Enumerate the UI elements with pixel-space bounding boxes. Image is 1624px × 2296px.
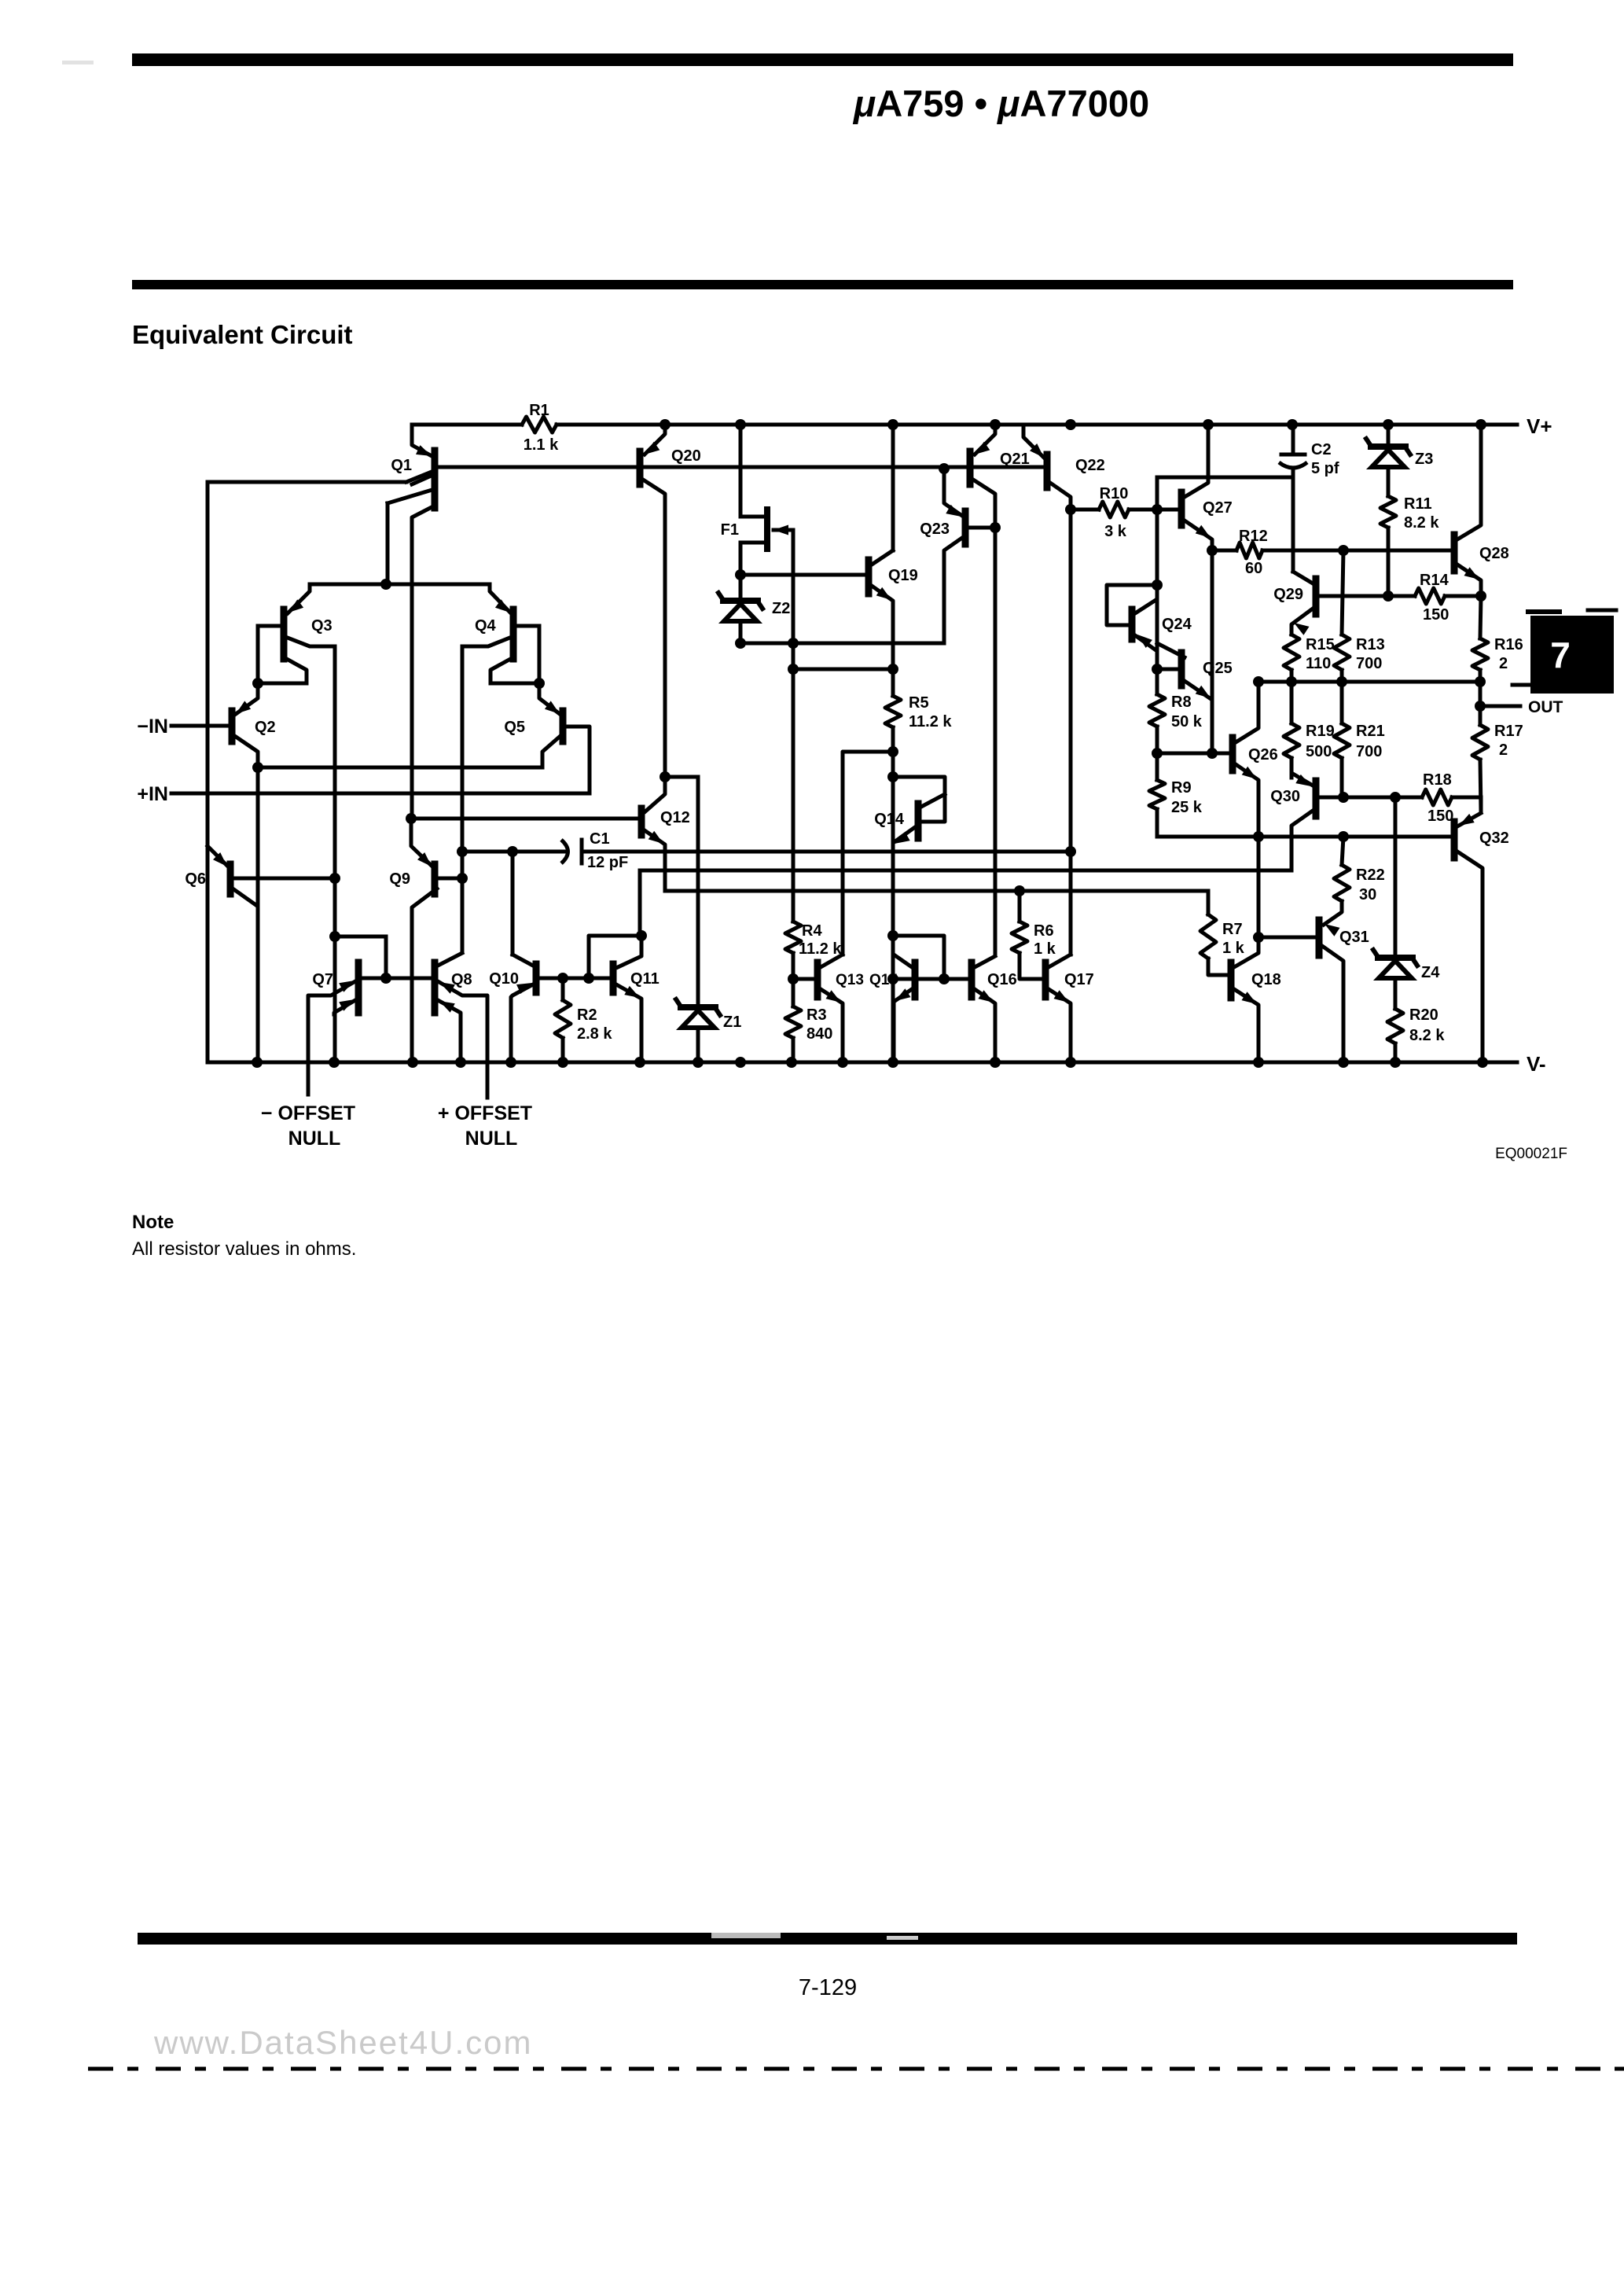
svg-text:Q20: Q20	[671, 447, 701, 465]
svg-text:R14: R14	[1420, 572, 1449, 589]
junction V- rail x1007	[786, 1057, 797, 1068]
svg-text:8.2 k: 8.2 k	[1409, 1027, 1445, 1044]
resistor R17	[1472, 682, 1523, 811]
junction V- rail x942	[735, 1057, 746, 1068]
junction Q9 base node	[457, 873, 468, 884]
junction Q25 base node	[1152, 664, 1163, 675]
junction C1 x652	[507, 846, 518, 857]
junction F1 gate node	[788, 638, 799, 649]
svg-text:R5: R5	[909, 694, 929, 712]
junction R4 bottom	[788, 973, 799, 984]
junction V- rail x650	[505, 1057, 516, 1068]
junction R2 top	[557, 973, 568, 984]
capacitor C1	[561, 830, 628, 871]
resistor R10	[1071, 485, 1157, 540]
svg-text:Q9: Q9	[389, 870, 410, 888]
svg-text:Q24: Q24	[1162, 616, 1192, 633]
wire Q11 collector loop	[589, 936, 641, 978]
svg-text:Q2: Q2	[255, 719, 276, 736]
wire R5 bottom to Q13	[843, 752, 893, 955]
wire mid line y1107	[640, 869, 1291, 873]
svg-text:Q27: Q27	[1203, 499, 1233, 517]
junction V- rail x425	[329, 1057, 340, 1068]
wire +IN line to Q5 base	[171, 727, 590, 793]
svg-text:R6: R6	[1034, 922, 1054, 940]
junction Q19 base node	[735, 569, 746, 580]
svg-text:Z3: Z3	[1415, 451, 1433, 468]
transistor Q20	[640, 425, 701, 497]
tab tick marks	[1528, 610, 1616, 612]
junction Q2 collector node	[252, 762, 263, 773]
junction Q15 loop bottom	[939, 973, 950, 984]
resistor R16	[1472, 596, 1523, 682]
resistor R11	[1380, 495, 1439, 594]
resistor R20	[1387, 1006, 1445, 1062]
svg-text:700: 700	[1356, 743, 1382, 760]
svg-text:8.2 k: 8.2 k	[1404, 514, 1439, 532]
transistor Q1	[388, 425, 435, 519]
svg-text:Q25: Q25	[1203, 660, 1233, 677]
resistor R21	[1334, 682, 1385, 796]
second rule	[132, 280, 1513, 289]
junction R6 top	[1014, 885, 1025, 896]
wire Q23 collector up	[942, 469, 946, 494]
junction V- rail x1775	[1390, 1057, 1401, 1068]
junction Q11 loop node	[636, 930, 647, 941]
transistor Q3	[258, 584, 335, 683]
wire x426 vertical	[333, 646, 337, 1062]
label OUT	[1528, 698, 1563, 716]
resistor R22	[1324, 837, 1385, 936]
svg-text:110: 110	[1306, 655, 1331, 672]
wire Q24 collector loop	[1107, 585, 1157, 625]
transistor Q18	[1231, 937, 1281, 1062]
junction OUT x1643	[1286, 676, 1297, 687]
transistor Q16	[972, 956, 1017, 1062]
resistor R3	[785, 979, 832, 1062]
junction Q27 base node	[1152, 504, 1163, 515]
label +OFFSET NULL	[438, 1102, 532, 1150]
svg-text:Q31: Q31	[1339, 929, 1369, 946]
junction V+ rail x846	[660, 419, 671, 430]
svg-text:All resistor values in ohms.: All resistor values in ohms.	[132, 1238, 356, 1260]
zener Z2	[718, 593, 790, 643]
junction R12-R13 node	[1338, 545, 1349, 556]
transistor Q15	[869, 955, 915, 1062]
svg-text:C1: C1	[590, 830, 610, 848]
wire F1 drain from V+	[739, 425, 743, 517]
svg-text:60: 60	[1245, 560, 1262, 577]
svg-text:Z2: Z2	[772, 600, 790, 617]
junction V- rail x1362	[1065, 1057, 1076, 1068]
wire F1 source down	[739, 543, 743, 599]
svg-text:11.2 k: 11.2 k	[799, 940, 842, 958]
label R12 value	[1239, 528, 1268, 577]
wire Q19 emitter down	[891, 607, 895, 669]
junction Q15 loop top	[887, 930, 898, 941]
transistor Q7	[308, 936, 434, 1095]
resistor R12	[1207, 543, 1453, 558]
label -IN	[137, 716, 168, 738]
svg-text:Z4: Z4	[1421, 964, 1440, 981]
svg-text:R19: R19	[1306, 723, 1335, 740]
svg-text:Q18: Q18	[1251, 971, 1281, 988]
svg-text:R1: R1	[529, 402, 549, 419]
svg-text:1.1 k: 1.1 k	[524, 436, 559, 454]
wire Q14 collector loop	[893, 777, 945, 822]
chapter tab black square	[1530, 616, 1614, 694]
junction V+ rail x1766	[1383, 419, 1394, 430]
transistor Q23	[920, 494, 995, 560]
junction Q23 base node	[990, 522, 1001, 533]
junction Q23 collector node	[939, 463, 950, 474]
transistor Q5	[504, 683, 563, 767]
junction Q15 base tap	[887, 973, 898, 984]
junction V- rail x1886	[1477, 1057, 1488, 1068]
wire Q26 emitter down	[1257, 782, 1261, 937]
svg-text:Q10: Q10	[489, 970, 519, 988]
wire Q2-Q5 collector join	[258, 766, 542, 770]
svg-text:1 k: 1 k	[1222, 940, 1245, 957]
svg-text:5 pf: 5 pf	[1311, 460, 1339, 477]
svg-text:R15: R15	[1306, 636, 1335, 653]
wire C2 bottom line	[1157, 476, 1293, 480]
wire Q2 collector down x328	[256, 767, 260, 1062]
svg-text:Q22: Q22	[1075, 457, 1105, 474]
junction Q7-Q8 base node	[380, 973, 391, 984]
wire Q15 collector loop	[893, 936, 944, 979]
wire node A left	[258, 682, 307, 686]
wire node B right	[491, 682, 539, 686]
svg-text:R17: R17	[1494, 723, 1523, 740]
svg-text:R8: R8	[1171, 694, 1192, 711]
zener Z1	[676, 777, 741, 1062]
transistor Q4	[462, 584, 539, 683]
resistor R4	[785, 922, 842, 979]
svg-text:2.8 k: 2.8 k	[577, 1025, 612, 1043]
wire Q1 collector-B vertical	[386, 503, 390, 584]
svg-text:Q3: Q3	[311, 617, 333, 635]
svg-text:R20: R20	[1409, 1006, 1438, 1024]
wire Q1 collector-A line	[208, 472, 432, 482]
heading Equivalent Circuit	[132, 320, 353, 349]
wire OUT line	[1258, 682, 1530, 685]
svg-text:F1: F1	[721, 521, 739, 539]
junction V- rail x814	[634, 1057, 645, 1068]
transistor Q14	[874, 794, 945, 844]
wire C1 line right	[582, 850, 1071, 854]
svg-text:150: 150	[1427, 808, 1453, 825]
svg-text:EQ00021F: EQ00021F	[1495, 1146, 1567, 1162]
svg-text:Q21: Q21	[1000, 451, 1030, 468]
junction V- rail x1601	[1253, 1057, 1264, 1068]
wire V+ rail	[412, 423, 1517, 427]
wire Q14 emitter down to Q15	[891, 844, 895, 1062]
svg-text:Z1: Z1	[723, 1014, 741, 1031]
wire OUT stub	[1475, 701, 1520, 712]
svg-text:Q13: Q13	[836, 972, 864, 988]
junction V- rail x1136	[887, 1057, 898, 1068]
svg-text:Q1: Q1	[391, 457, 412, 474]
wire Q26 base line	[1157, 752, 1231, 756]
transistor Q32	[1454, 813, 1509, 1062]
wire Q15-Q16 base line	[915, 977, 969, 981]
transistor Q25	[1157, 643, 1233, 753]
transistor Q24	[1132, 585, 1192, 669]
wire x1472 vertical	[1156, 477, 1159, 585]
svg-text:Q19: Q19	[888, 567, 918, 584]
wire Q21 collector down x1266	[994, 495, 998, 955]
zener Z3	[1366, 425, 1433, 496]
wire Q22 collector down x1362	[1069, 503, 1073, 955]
junction Q26 base node	[1207, 748, 1218, 759]
junction V- rail x1266	[990, 1057, 1001, 1068]
svg-text:R3: R3	[806, 1006, 827, 1024]
svg-text:Q5: Q5	[504, 719, 525, 736]
svg-text:2: 2	[1499, 655, 1508, 672]
junction OUT x1883	[1475, 676, 1486, 687]
svg-text:25 k: 25 k	[1171, 799, 1203, 816]
svg-text:Q16: Q16	[987, 971, 1017, 988]
svg-text:Equivalent Circuit: Equivalent Circuit	[132, 320, 353, 349]
svg-text:840: 840	[806, 1025, 832, 1043]
transistor Q13	[793, 955, 864, 1062]
wire R5 top line	[793, 668, 893, 672]
junction x1009 R5 tap	[788, 664, 799, 675]
junction Z2 bottom	[735, 638, 746, 649]
wire Q12 collector link to Z1	[665, 777, 698, 778]
wire x1472 to Q25 base	[1156, 585, 1159, 669]
note body	[132, 1238, 356, 1260]
transistor Q29	[1273, 572, 1388, 635]
wire Q20 collector vertical	[663, 497, 667, 777]
transistor Q31	[1258, 920, 1369, 1062]
junction C1 x1362	[1065, 846, 1076, 857]
junction V- rail x716	[557, 1057, 568, 1068]
junction Q12 collector node	[660, 771, 671, 782]
junction V- rail x1709	[1338, 1057, 1349, 1068]
junction R14 right node	[1475, 591, 1486, 602]
dashed tear line	[88, 2067, 1624, 2071]
transistor Q2	[232, 683, 276, 767]
svg-text:Q17: Q17	[1064, 971, 1094, 988]
svg-text:V+: V+	[1527, 414, 1552, 438]
svg-text:R12: R12	[1239, 528, 1268, 545]
junction R5 bottom	[887, 746, 898, 757]
wire Q32 base line y1064	[1157, 835, 1451, 839]
junction V- rail x586	[455, 1057, 466, 1068]
wire Q12 base line	[411, 817, 640, 821]
wire Q4 base down	[538, 626, 542, 683]
svg-text:R7: R7	[1222, 921, 1243, 938]
transistor Q11	[613, 936, 660, 1062]
svg-text:700: 700	[1356, 655, 1382, 672]
svg-text:500: 500	[1306, 743, 1332, 760]
page title uA759 - uA77000	[852, 83, 1149, 124]
wire Q1 base to Q20/Q21/Q22 bases	[439, 465, 1047, 469]
resistor R5	[885, 669, 952, 752]
transistor Q27	[1181, 425, 1233, 550]
figure code EQ00021F	[1495, 1146, 1567, 1162]
svg-text:−IN: −IN	[137, 716, 168, 738]
transistor Q26	[1233, 682, 1278, 782]
svg-text:7: 7	[1550, 635, 1571, 675]
svg-text:OUT: OUT	[1528, 698, 1563, 716]
wire Q27 base link	[1157, 508, 1179, 512]
junction Q9 emitter node	[406, 813, 417, 824]
transistor Q6	[185, 846, 336, 906]
svg-text:R11: R11	[1404, 495, 1432, 513]
page top rule	[62, 53, 1513, 66]
junction x588 C1 node	[457, 846, 468, 857]
svg-text:− OFFSET: − OFFSET	[261, 1102, 355, 1124]
svg-text:V-: V-	[1527, 1052, 1546, 1076]
svg-text:30: 30	[1359, 886, 1376, 903]
junction OUT x1707	[1336, 676, 1347, 687]
svg-text:R21: R21	[1356, 723, 1385, 740]
junction R5 top	[887, 664, 898, 675]
svg-text:3 k: 3 k	[1104, 523, 1127, 540]
resistor R7	[1200, 891, 1245, 975]
label V-	[1527, 1052, 1546, 1076]
svg-text:Q26: Q26	[1248, 746, 1278, 763]
junction R18 R21 node	[1338, 792, 1349, 803]
wire R5 node down	[891, 752, 895, 844]
junction V- rail x888	[693, 1057, 704, 1068]
svg-text:11.2 k: 11.2 k	[909, 713, 952, 730]
svg-text:12 pF: 12 pF	[587, 854, 628, 871]
page number 7-129	[799, 1975, 857, 2000]
junction node Q1C-B	[380, 579, 391, 590]
transistor Q30	[1270, 758, 1422, 870]
wire Q1 emitter-down vertical x524	[410, 519, 414, 819]
svg-text:150: 150	[1423, 606, 1449, 624]
resistor R15	[1284, 635, 1335, 682]
svg-text:Q12: Q12	[660, 809, 690, 826]
wire -IN lead	[171, 724, 230, 728]
junction V+ rail x1136	[887, 419, 898, 430]
resistor R6	[1012, 891, 1056, 979]
junction V+ rail x1884	[1475, 419, 1486, 430]
svg-text:+IN: +IN	[137, 783, 168, 805]
transistor Q19	[869, 550, 918, 607]
resistor R13	[1334, 550, 1385, 682]
svg-text:2: 2	[1499, 741, 1508, 759]
wire left outer vertical	[206, 482, 210, 1062]
junction R10 left node	[1065, 504, 1076, 515]
junction V+ rail x1266	[990, 419, 1001, 430]
note heading	[132, 1212, 174, 1233]
wire V- rail	[208, 1061, 1517, 1065]
junction V+ rail x942	[735, 419, 746, 430]
label V+	[1527, 414, 1552, 438]
junction V+ rail x1644	[1287, 419, 1298, 430]
svg-text:C2: C2	[1311, 441, 1332, 458]
junction node A	[252, 678, 263, 689]
transistor Q9	[389, 819, 462, 1062]
wire x588 vertical (Q4 to Q8)	[461, 646, 465, 951]
wire Q25 base link	[1157, 668, 1179, 672]
svg-text:R22: R22	[1356, 867, 1385, 884]
transistor Q10	[489, 955, 612, 1062]
wire x1009 down (to R4)	[792, 643, 795, 922]
junction V- rail x327	[252, 1057, 263, 1068]
svg-text:μA759 • μA77000: μA759 • μA77000	[852, 83, 1149, 124]
junction node B	[534, 678, 545, 689]
svg-text:Q14: Q14	[874, 811, 905, 828]
svg-text:R13: R13	[1356, 636, 1385, 653]
wire Q3 base down	[256, 626, 260, 683]
wire F1 gate down	[792, 530, 795, 643]
junction V+ rail x1362	[1065, 419, 1076, 430]
svg-text:R18: R18	[1423, 771, 1452, 789]
svg-text:NULL: NULL	[465, 1128, 518, 1150]
fet F1	[721, 510, 793, 549]
zener Z4	[1373, 797, 1440, 1009]
transistor Q17	[1045, 955, 1094, 1062]
transistor Q8	[435, 953, 487, 1098]
svg-text:R9: R9	[1171, 779, 1192, 797]
wire Z2 bottom line	[740, 642, 944, 646]
svg-text:+ OFFSET: + OFFSET	[438, 1102, 532, 1124]
svg-text:Q11: Q11	[630, 970, 660, 988]
wire Q27 emitter column x1542	[1211, 550, 1214, 700]
resistor R18	[1422, 771, 1481, 825]
svg-text:Q4: Q4	[475, 617, 497, 635]
svg-text:Q29: Q29	[1273, 586, 1303, 603]
junction Q7 collector tap	[329, 931, 340, 942]
wire x816 vertical (to Q11)	[638, 870, 642, 936]
junction OUT x1601	[1253, 676, 1264, 687]
junction Q11 collector tap	[583, 973, 594, 984]
resistor R9	[1149, 753, 1454, 837]
transistor Q22	[1023, 425, 1105, 503]
svg-text:50 k: 50 k	[1171, 713, 1203, 730]
junction R18 Z4 node	[1390, 792, 1401, 803]
junction Q6 base node	[329, 873, 340, 884]
wire C1 line left	[462, 850, 564, 854]
svg-text:www.DataSheet4U.com: www.DataSheet4U.com	[153, 2024, 533, 2061]
wire C2-Q29 vertical x1645	[1291, 477, 1295, 572]
junction R8 bottom	[1152, 748, 1163, 759]
junction V+ rail x1537	[1203, 419, 1214, 430]
wire Q19 collector up	[891, 425, 895, 550]
svg-text:7-129: 7-129	[799, 1975, 857, 2000]
svg-text:1 k: 1 k	[1034, 940, 1056, 958]
bottom rule	[138, 1933, 1517, 1945]
resistor R14	[1388, 572, 1481, 624]
svg-text:Note: Note	[132, 1212, 174, 1233]
wire x652 vertical (C1 to Q10)	[511, 852, 515, 955]
resistor R2	[555, 978, 612, 1062]
wire Q23 emitter down	[942, 560, 946, 643]
svg-text:NULL: NULL	[288, 1128, 341, 1150]
svg-text:R4: R4	[802, 922, 822, 940]
resistor R1	[522, 402, 559, 454]
resistor R8	[1149, 669, 1203, 753]
svg-text:Q6: Q6	[185, 870, 206, 888]
junction R14 left node	[1383, 591, 1394, 602]
svg-text:Q8: Q8	[451, 971, 472, 988]
label -OFFSET NULL	[261, 1102, 355, 1150]
transistor Q21	[970, 425, 1030, 495]
wire Q12 emitter line (to R7)	[665, 848, 1208, 891]
wire R18 right up	[1479, 797, 1483, 811]
svg-text:R10: R10	[1100, 485, 1129, 502]
junction Q31 base node	[1253, 932, 1264, 943]
junction Q24 node	[1152, 580, 1163, 591]
svg-text:Q7: Q7	[312, 971, 333, 988]
